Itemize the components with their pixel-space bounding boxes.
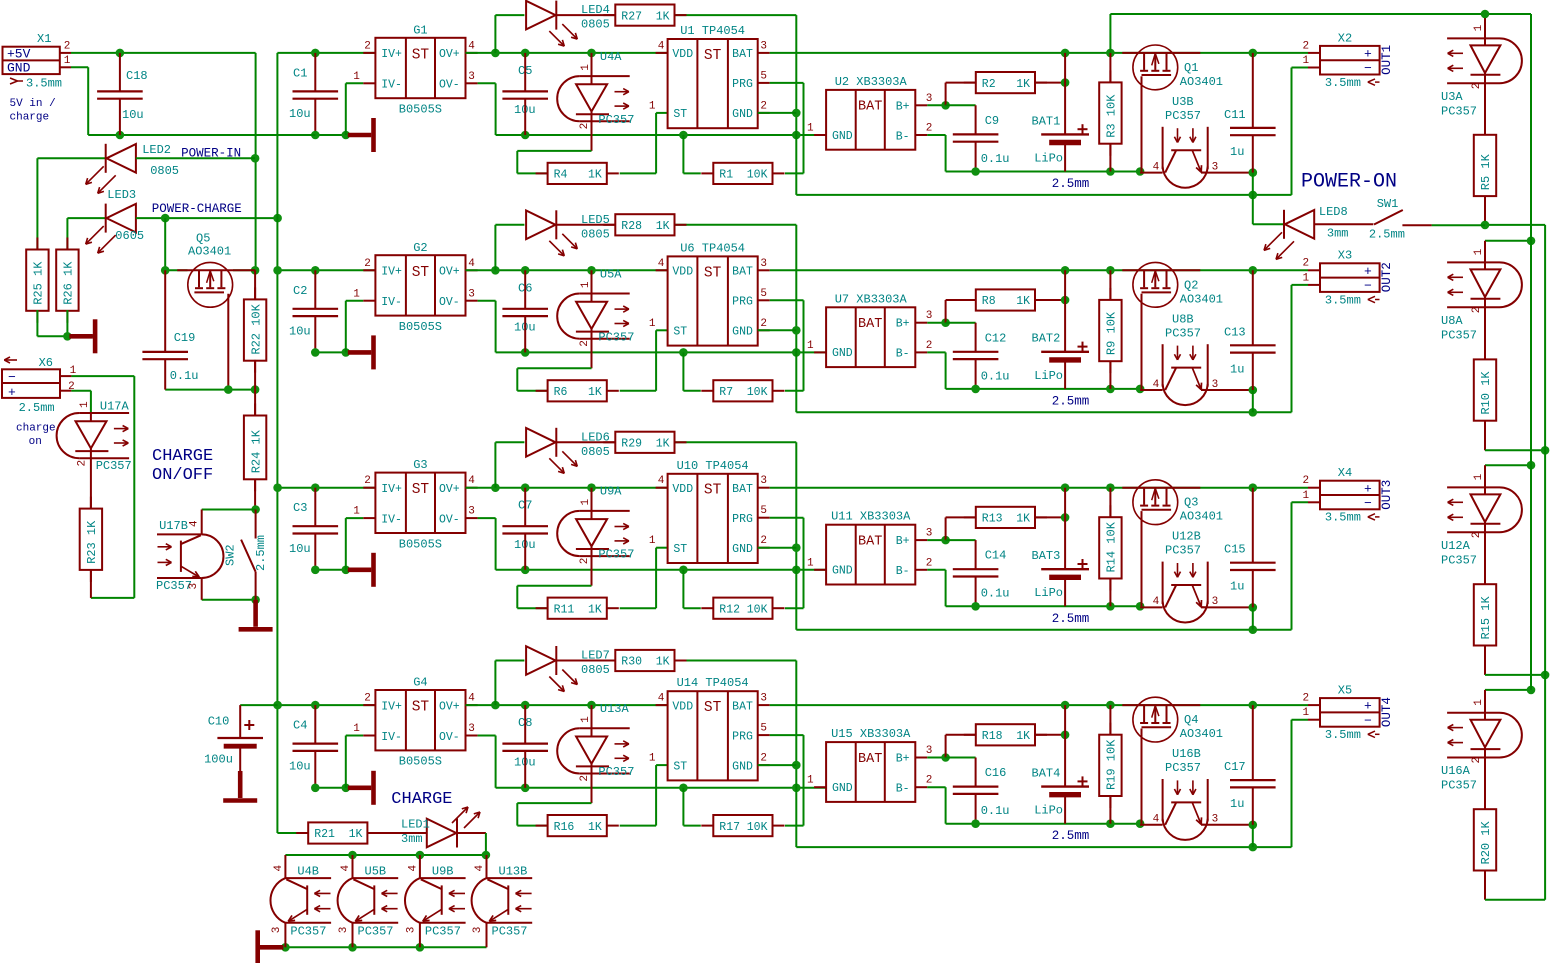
svg-text:1K: 1K [588, 603, 602, 616]
optocoupler U12A [1447, 486, 1499, 488]
junction C18 top / power-in [116, 49, 125, 58]
optocoupler U16A [1447, 712, 1499, 714]
wire C11 leads [1252, 705, 1254, 780]
wire R to ST pin [620, 172, 656, 174]
wire opto pins [1140, 824, 1163, 826]
junction input gnd [311, 131, 320, 140]
resistor R4 [536, 172, 548, 174]
resistor R13 [964, 516, 976, 518]
svg-text:10u: 10u [289, 542, 311, 556]
svg-text:C2: C2 [293, 284, 307, 298]
resistor R11 [536, 607, 548, 609]
capacitor C6 [502, 308, 548, 310]
wire GND pin to bus [758, 547, 797, 549]
optocoupler U8A [1447, 261, 1499, 263]
ground [348, 785, 372, 790]
svg-text:AO3401: AO3401 [1180, 292, 1223, 306]
optocoupler U4B [284, 855, 286, 878]
svg-text:BAT: BAT [732, 483, 753, 496]
svg-text:B-: B- [896, 130, 910, 143]
DC-DC converter G2 [375, 255, 465, 315]
svg-text:2: 2 [1471, 532, 1483, 539]
wire output rail [466, 704, 668, 706]
wire R3 leads [1109, 705, 1111, 735]
svg-text:4: 4 [658, 475, 665, 487]
svg-text:3: 3 [926, 528, 933, 540]
svg-text:2: 2 [364, 40, 371, 52]
svg-text:G3: G3 [413, 458, 427, 472]
svg-text:Q5: Q5 [196, 232, 210, 246]
junction opto top rail [348, 851, 357, 860]
svg-text:4: 4 [468, 40, 475, 52]
wire top rail to right column [1109, 14, 1111, 53]
junction emitter / C11 [1249, 386, 1258, 395]
LED LED4 [555, 1, 557, 30]
svg-text:1u: 1u [1230, 797, 1244, 811]
svg-text:2.5mm: 2.5mm [1052, 394, 1090, 408]
junction feed [1527, 461, 1536, 470]
svg-text:3.5mm: 3.5mm [1325, 76, 1361, 90]
svg-text:1: 1 [353, 288, 360, 300]
svg-text:1u: 1u [1230, 580, 1244, 594]
svg-text:R21: R21 [314, 828, 335, 841]
svg-text:BAT1: BAT1 [1032, 114, 1061, 128]
svg-text:U13B: U13B [499, 865, 528, 879]
svg-text:4: 4 [468, 475, 475, 487]
wire Q5 drain [233, 269, 255, 271]
svg-text:VDD: VDD [672, 48, 693, 61]
svg-text:1: 1 [1473, 24, 1485, 31]
svg-text:2: 2 [1302, 475, 1309, 487]
svg-text:B0505S: B0505S [399, 103, 442, 117]
svg-text:PRG: PRG [732, 730, 753, 743]
svg-text:4: 4 [658, 40, 665, 52]
wire X pins [1308, 704, 1320, 706]
junction output gnd rail [521, 784, 530, 793]
svg-text:B0505S: B0505S [399, 537, 442, 551]
junction LED feed / C top / opto [491, 266, 500, 275]
svg-text:U9B: U9B [432, 865, 454, 879]
junction battery minus [971, 385, 980, 394]
wire X pins [1308, 269, 1320, 271]
svg-text:1K: 1K [1016, 78, 1030, 91]
DC-DC converter G1 [375, 38, 465, 98]
svg-text:2: 2 [1302, 40, 1309, 52]
svg-text:2: 2 [579, 775, 591, 782]
wire status LED line [495, 660, 524, 662]
svg-text:1K: 1K [349, 828, 363, 841]
wire opto pins [591, 53, 593, 76]
svg-text:U8A: U8A [1441, 314, 1463, 328]
svg-text:LED1: LED1 [401, 818, 430, 832]
plus C10 [244, 724, 254, 726]
svg-text:ST: ST [673, 108, 687, 121]
svg-text:3: 3 [468, 71, 475, 83]
resistor R20 [1484, 797, 1486, 809]
svg-text:+: + [1364, 47, 1372, 62]
svg-text:+: + [1364, 699, 1372, 714]
svg-text:10u: 10u [289, 759, 311, 773]
svg-text:OUT1: OUT1 [1380, 45, 1394, 75]
svg-text:OUT4: OUT4 [1380, 697, 1394, 727]
wire C7 leads [524, 488, 526, 527]
wire right opto pins [1484, 14, 1486, 38]
wire input ground rail [315, 351, 346, 353]
svg-text:5: 5 [760, 288, 767, 300]
svg-text:PC357: PC357 [290, 924, 326, 938]
svg-text:2.5mm: 2.5mm [1052, 612, 1090, 626]
junction Q5 feed [161, 214, 170, 223]
wire X pins [1308, 487, 1320, 489]
wire OV- output ground [478, 517, 496, 519]
ground [260, 945, 284, 950]
wire POWER-CHARGE [136, 217, 278, 219]
DC-DC converter G4 [375, 690, 465, 750]
svg-text:10u: 10u [289, 325, 311, 339]
svg-text:IV+: IV+ [381, 48, 402, 61]
svg-text:10u: 10u [289, 107, 311, 121]
LED LED6 [555, 428, 557, 457]
battery BAT2 [1064, 270, 1066, 352]
switch SW2 [255, 510, 257, 539]
svg-text:PC357: PC357 [492, 924, 528, 938]
svg-text:C15: C15 [1224, 543, 1246, 557]
resistor R9 [1109, 288, 1111, 300]
svg-text:R12: R12 [719, 603, 740, 616]
junction battery minus [971, 167, 980, 176]
svg-text:CHARGE: CHARGE [391, 790, 452, 809]
junction R2/battery [1061, 78, 1070, 87]
capacitor C13 [1230, 344, 1276, 346]
LED LED3 [105, 204, 107, 233]
wire opto to R [517, 367, 591, 369]
junction feed [1527, 686, 1536, 695]
svg-text:3mm: 3mm [401, 832, 423, 846]
svg-text:2: 2 [926, 340, 933, 352]
LED LED5 [555, 210, 557, 239]
wire R21 to LED1 [369, 832, 428, 834]
svg-text:R17: R17 [719, 821, 740, 834]
wire LED1 cathode [457, 832, 486, 834]
battery BAT4 [1064, 705, 1066, 787]
svg-text:2: 2 [1471, 757, 1483, 764]
junction battery minus [971, 819, 980, 828]
svg-text:R11: R11 [554, 603, 575, 616]
svg-text:OV+: OV+ [439, 48, 460, 61]
junction C3 top [311, 483, 320, 492]
svg-text:G2: G2 [413, 241, 427, 255]
wire OV- output ground [478, 300, 496, 302]
svg-text:IV-: IV- [381, 731, 402, 744]
svg-text:−: − [1364, 279, 1372, 294]
svg-text:U5B: U5B [365, 865, 387, 879]
wire C2 leads [314, 270, 316, 309]
wire status LED line [495, 441, 524, 443]
svg-text:U5A: U5A [600, 267, 622, 281]
svg-text:5V in /: 5V in / [10, 98, 56, 110]
wire C18 leads [119, 53, 121, 92]
wire LED2 cathode [37, 157, 105, 159]
svg-text:B+: B+ [896, 753, 910, 766]
wire C8 leads [524, 705, 526, 744]
junction feed [1527, 237, 1536, 246]
transistor Q5 [188, 262, 233, 307]
wire R2 left [946, 82, 976, 84]
wire R2 right [1035, 734, 1065, 736]
wire C11 leads [1252, 53, 1254, 128]
pins U10 [656, 487, 668, 489]
wire output rail [466, 52, 668, 54]
transistor Q1 [1133, 45, 1178, 90]
connector X2 [1320, 46, 1380, 75]
svg-text:X1: X1 [37, 32, 51, 46]
junction bus C [792, 543, 801, 552]
wire C11 leads [1252, 488, 1254, 563]
svg-text:ON/OFF: ON/OFF [152, 466, 213, 485]
wire C11 leads [1252, 270, 1254, 345]
svg-text:0805: 0805 [581, 227, 610, 241]
wire X6 pin1 loop [71, 375, 134, 377]
svg-text:Q4: Q4 [1184, 713, 1198, 727]
svg-text:1: 1 [580, 64, 592, 71]
wire R3 leads [1109, 53, 1111, 83]
battery BAT1 [1064, 53, 1066, 134]
footprint mark [1368, 79, 1375, 82]
wire opto pins [591, 488, 593, 511]
junction R2/battery [1061, 296, 1070, 305]
svg-text:IV+: IV+ [381, 266, 402, 279]
wire BAT out rail [770, 487, 1308, 489]
svg-text:1: 1 [807, 775, 814, 787]
svg-text:1: 1 [79, 401, 91, 408]
footprint mark [1368, 731, 1375, 734]
svg-text:X6: X6 [39, 356, 53, 370]
protection IC U7 [826, 307, 915, 367]
wire rail4 to C10 [240, 704, 277, 706]
junction B+ [941, 101, 950, 110]
wire R2 right [1035, 516, 1065, 518]
svg-text:2: 2 [364, 693, 371, 705]
wire emitter to bot rail [1252, 607, 1254, 629]
svg-text:OUT2: OUT2 [1380, 262, 1394, 292]
ground [348, 350, 372, 355]
svg-text:R28: R28 [621, 220, 642, 233]
wire R pulldown [683, 607, 700, 609]
ground [348, 133, 372, 138]
connector X3 [1320, 263, 1380, 292]
junction emitter / C11 [1249, 821, 1258, 830]
wire status LED line [495, 14, 524, 16]
svg-text:R6: R6 [554, 386, 568, 399]
footprint mark [1368, 296, 1375, 299]
resistor R7 [701, 390, 713, 392]
svg-text:ST: ST [412, 265, 430, 281]
svg-text:ST: ST [704, 48, 722, 64]
svg-text:AO3401: AO3401 [1180, 75, 1223, 89]
wire C1 leads [314, 53, 316, 92]
junction R5 bottom [1481, 221, 1490, 230]
svg-text:3: 3 [760, 258, 767, 270]
svg-text:0.1u: 0.1u [170, 369, 199, 383]
svg-text:3: 3 [760, 40, 767, 52]
wire C9 leads [946, 757, 976, 759]
junction battery minus [971, 602, 980, 611]
svg-text:GND: GND [732, 543, 753, 556]
resistor R19 [1109, 723, 1111, 735]
resistor R25 [36, 238, 38, 250]
junction R24 bottom [251, 505, 260, 514]
svg-text:U12A: U12A [1441, 539, 1471, 553]
svg-text:0.1u: 0.1u [981, 587, 1010, 601]
arrow mark X6 [4, 359, 17, 361]
svg-text:LiPo: LiPo [1034, 804, 1063, 818]
junction U3A pin1 [1481, 10, 1490, 19]
pins G2 [363, 269, 375, 271]
junction input gnd [311, 784, 320, 793]
junction LED feed / C top / opto [491, 49, 500, 58]
pins G3 [363, 487, 375, 489]
svg-text:BAT3: BAT3 [1032, 549, 1061, 563]
pins U2 [814, 134, 826, 136]
svg-text:4: 4 [340, 865, 352, 872]
svg-text:U11 XB3303A: U11 XB3303A [831, 510, 911, 524]
capacitor C7 [502, 525, 548, 527]
svg-text:0805: 0805 [581, 445, 610, 459]
svg-text:1: 1 [807, 557, 814, 569]
charger IC U6 [668, 256, 758, 345]
svg-text:1: 1 [353, 71, 360, 83]
wire LED8 anode [1252, 195, 1254, 224]
wire right opto feed [1485, 689, 1531, 691]
svg-text:1K: 1K [588, 169, 602, 182]
pins U6 [656, 269, 668, 271]
wire R2 left [946, 516, 976, 518]
pins G4 [363, 704, 375, 706]
junction bat rail [1061, 266, 1070, 275]
wire LED3 cathode [67, 217, 105, 219]
svg-text:C4: C4 [293, 719, 307, 733]
svg-text:1: 1 [649, 100, 656, 112]
svg-text:ST: ST [412, 47, 430, 63]
svg-text:GND: GND [832, 347, 853, 360]
capacitor C9 [953, 133, 999, 135]
svg-text:2: 2 [364, 475, 371, 487]
svg-text:1K: 1K [588, 821, 602, 834]
svg-text:2: 2 [1471, 307, 1483, 314]
wire R pulldown [683, 172, 700, 174]
svg-text:SW2: SW2 [224, 544, 238, 566]
svg-text:+: + [1364, 481, 1372, 496]
wire IV- to gnd [346, 300, 364, 302]
wire gate [1141, 511, 1143, 606]
svg-text:1: 1 [1473, 248, 1485, 255]
svg-text:on: on [29, 436, 42, 448]
svg-text:0805: 0805 [581, 18, 610, 32]
junction emitter / C11 [1249, 168, 1258, 177]
junction opto bottom rail [281, 943, 290, 952]
resistor R17 [701, 825, 713, 827]
svg-text:2.5mm: 2.5mm [254, 535, 268, 571]
svg-text:1K: 1K [1016, 730, 1030, 743]
svg-text:POWER-ON: POWER-ON [1301, 171, 1397, 194]
svg-text:X5: X5 [1338, 684, 1352, 698]
optocoupler U17A [79, 412, 129, 414]
svg-text:PC357: PC357 [598, 113, 634, 127]
wire X pins [1308, 52, 1320, 54]
svg-text:C13: C13 [1224, 325, 1246, 339]
capacitor C4 [293, 742, 339, 744]
svg-text:GND: GND [832, 782, 853, 795]
wire C10 leads [239, 705, 241, 738]
svg-text:2: 2 [1471, 83, 1483, 90]
wire R22 leads [254, 270, 256, 300]
wire OV- output ground [478, 82, 496, 84]
svg-text:1u: 1u [1230, 362, 1244, 376]
junction LED feed / C top / opto [491, 483, 500, 492]
svg-text:B+: B+ [896, 535, 910, 548]
svg-text:−: − [1364, 61, 1372, 76]
svg-text:U16A: U16A [1441, 764, 1471, 778]
LED LED2 [105, 144, 107, 173]
wire B+ node [927, 539, 945, 541]
svg-text:0.1u: 0.1u [981, 804, 1010, 818]
junction bat rail [1061, 701, 1070, 710]
svg-text:G4: G4 [413, 676, 427, 690]
svg-text:LiPo: LiPo [1034, 586, 1063, 600]
wire R2 left [946, 734, 976, 736]
wire U17B loop bottom [202, 599, 256, 601]
capacitor C2 [293, 308, 339, 310]
svg-text:R30: R30 [621, 656, 642, 669]
svg-text:Q3: Q3 [1184, 496, 1198, 510]
svg-text:IV+: IV+ [381, 483, 402, 496]
resistor R23 [90, 497, 92, 509]
wire POWER-CHARGE bus [276, 53, 278, 833]
svg-text:3.5mm: 3.5mm [1325, 293, 1361, 307]
wire output rail [466, 269, 668, 271]
resistor R14 [1109, 505, 1111, 517]
wire X1 +5V [71, 52, 256, 54]
wire C4 leads [314, 705, 316, 744]
svg-text:PRG: PRG [732, 513, 753, 526]
svg-text:IV-: IV- [381, 296, 402, 309]
svg-text:1: 1 [649, 318, 656, 330]
svg-text:3: 3 [472, 927, 484, 934]
svg-text:PC357: PC357 [1165, 326, 1201, 340]
svg-text:0805: 0805 [581, 663, 610, 677]
svg-text:C3: C3 [293, 501, 307, 515]
svg-text:IV-: IV- [381, 79, 402, 92]
wire BAT out rail [770, 52, 1308, 54]
wire opto to R [517, 802, 591, 804]
svg-text:OV-: OV- [439, 79, 460, 92]
svg-text:R7: R7 [719, 386, 733, 399]
optocoupler U5B [352, 855, 354, 878]
wire C9 leads [946, 539, 976, 541]
svg-text:1: 1 [807, 340, 814, 352]
wire emitter to bot rail [1252, 825, 1254, 847]
wire IV- to gnd [346, 82, 364, 84]
charger IC U10 [668, 474, 758, 563]
svg-text:2.5mm: 2.5mm [1052, 177, 1090, 191]
svg-text:ST: ST [673, 543, 687, 556]
wire C9 leads [946, 322, 976, 324]
junction output gnd rail [521, 566, 530, 575]
svg-text:B0505S: B0505S [399, 755, 442, 769]
footprint mark X1 [10, 78, 18, 81]
svg-text:3.5mm: 3.5mm [1325, 728, 1361, 742]
svg-text:U3A: U3A [1441, 90, 1463, 104]
